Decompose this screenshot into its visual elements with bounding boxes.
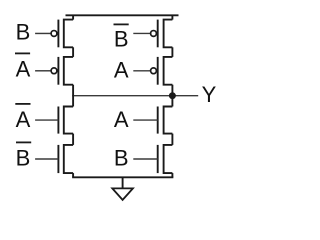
svg-text:B: B <box>16 145 31 170</box>
svg-text:A: A <box>16 57 31 82</box>
svg-text:A: A <box>114 107 129 132</box>
svg-text:B: B <box>16 20 31 45</box>
svg-text:B: B <box>114 145 129 170</box>
svg-text:A: A <box>114 57 129 82</box>
svg-text:A: A <box>16 107 31 132</box>
svg-text:B: B <box>114 27 129 52</box>
svg-text:Y: Y <box>202 82 217 107</box>
